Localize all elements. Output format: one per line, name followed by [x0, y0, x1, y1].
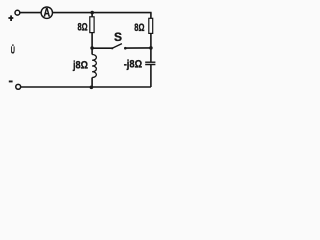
svg-text:A: A	[44, 7, 51, 19]
svg-text:-j8Ω: -j8Ω	[124, 58, 143, 70]
svg-text:j8Ω: j8Ω	[72, 60, 88, 72]
svg-text:8Ω: 8Ω	[134, 22, 144, 34]
svg-text:U: U	[11, 46, 15, 57]
svg-text:8Ω: 8Ω	[78, 22, 88, 34]
svg-text:S: S	[114, 30, 122, 44]
